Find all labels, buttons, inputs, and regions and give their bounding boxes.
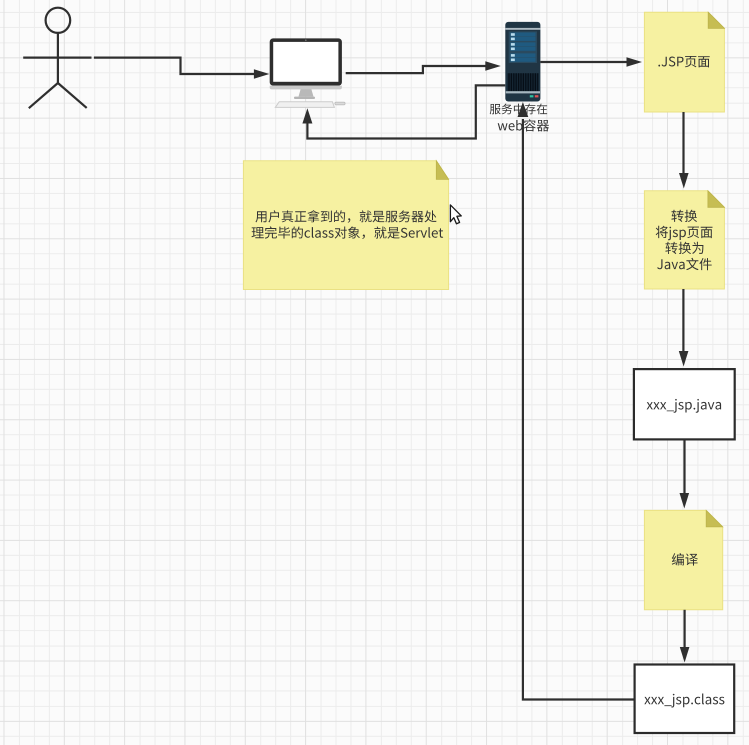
server tower icon	[505, 22, 540, 102]
wire: xxx_jsp.class back up to server	[523, 119, 635, 700]
note: 编译	[644, 510, 722, 609]
box: xxx_jsp.class	[635, 665, 735, 734]
arrow: JSP note to 转换 note	[682, 112, 684, 174]
mouse cursor	[450, 205, 461, 224]
arrowhead up into keyboard	[302, 108, 312, 123]
arrowhead up into server bottom	[518, 102, 529, 117]
arrow: 编译 note to xxx_jsp.class box	[683, 610, 685, 649]
arrowhead into server	[485, 61, 501, 71]
box: xxx_jsp.java	[634, 369, 735, 439]
wire: monitor to server	[346, 66, 487, 73]
arrow: java box to 编译 note	[683, 439, 685, 494]
wire: server to JSP note	[540, 61, 628, 63]
computer monitor icon	[270, 38, 345, 107]
note: 转换 将jsp页面 转换为 Java文件	[644, 191, 724, 289]
wire: user to monitor	[94, 58, 257, 74]
label: 服务中存在 web容器	[490, 104, 549, 132]
arrowhead into JSP note	[627, 57, 643, 67]
arrowhead into monitor	[254, 69, 270, 79]
note: JSP页面	[644, 12, 724, 112]
actor: stick-figure user	[23, 8, 91, 109]
note: explanation 用户真正拿到的...	[243, 161, 448, 290]
arrow: 转换 note to xxx_jsp.java box	[682, 289, 684, 352]
wire: server back to monitor keyboard	[307, 85, 505, 138]
